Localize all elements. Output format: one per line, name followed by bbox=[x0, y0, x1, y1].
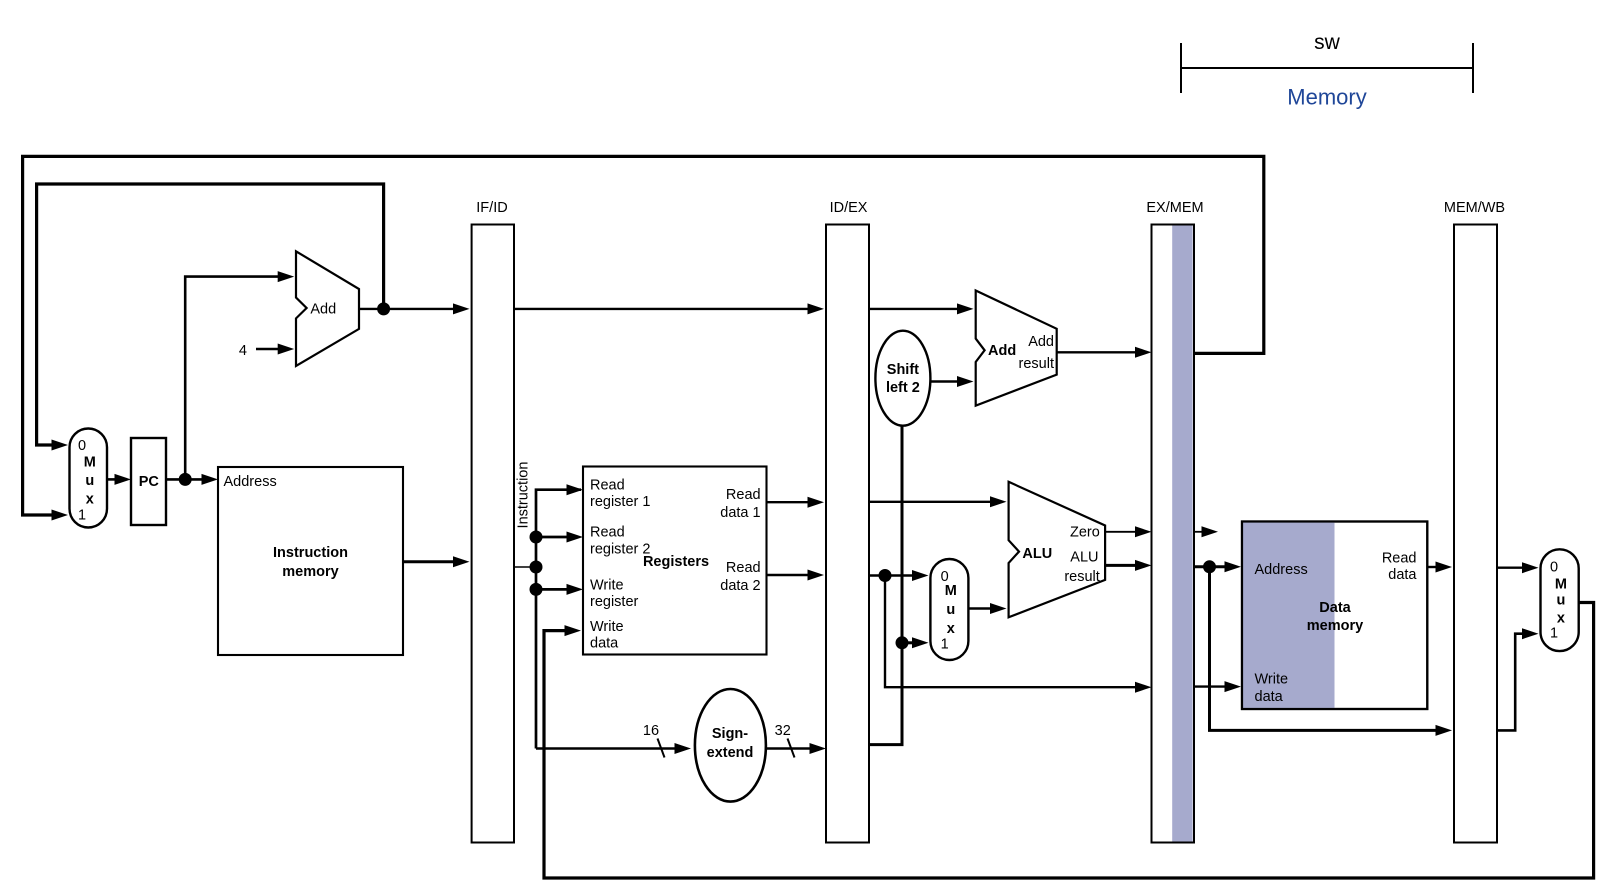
svg-text:32: 32 bbox=[775, 723, 791, 739]
wire: data memory read data to MEM/WB bbox=[1427, 562, 1452, 573]
svg-text:register 1: register 1 bbox=[590, 494, 650, 510]
junction dot immediate/mux1 bbox=[896, 636, 909, 649]
svg-text:memory: memory bbox=[1307, 618, 1363, 634]
wire: PC+4 loop from Add output to PC mux input 0 bbox=[37, 184, 384, 451]
svg-text:4: 4 bbox=[239, 343, 247, 359]
pipeline register ID/EX bbox=[826, 200, 869, 843]
unit shift left 2 bbox=[875, 331, 930, 426]
wire: Zero to EX/MEM bbox=[1105, 526, 1151, 537]
wire: PC+4 from ID/EX to branch Add bbox=[869, 303, 974, 314]
wire: MEM/WB read data to final mux input 0 bbox=[1497, 562, 1539, 573]
svg-text:Registers: Registers bbox=[643, 554, 709, 570]
wire: write-back from final mux to registers write data bbox=[544, 603, 1594, 879]
svg-text:ID/EX: ID/EX bbox=[830, 200, 868, 216]
wire: MEM/WB ALU result to final mux input 1 bbox=[1497, 628, 1539, 730]
svg-text:1: 1 bbox=[941, 637, 949, 653]
wire: mux to PC bbox=[107, 474, 132, 485]
wire: shift left 2 out to branch Add bbox=[930, 376, 973, 387]
svg-text:x: x bbox=[947, 621, 955, 637]
mux M1 (PC source mux) bbox=[70, 429, 108, 528]
svg-text:extend: extend bbox=[707, 745, 754, 761]
svg-text:u: u bbox=[85, 473, 94, 489]
svg-text:Read: Read bbox=[590, 478, 625, 494]
svg-text:16: 16 bbox=[643, 723, 659, 739]
wire: read data 2 from ID/EX to mux and EX/MEM write data bbox=[869, 569, 1152, 693]
svg-text:Read: Read bbox=[726, 487, 761, 503]
svg-text:Memory: Memory bbox=[1287, 85, 1366, 110]
svg-text:0: 0 bbox=[78, 438, 86, 454]
svg-text:IF/ID: IF/ID bbox=[476, 200, 507, 216]
svg-text:M: M bbox=[84, 455, 96, 471]
wire: ALU result to EX/MEM bbox=[1105, 560, 1151, 571]
mux M2 (ALU operand mux) bbox=[930, 559, 968, 660]
svg-text:0: 0 bbox=[1550, 560, 1558, 576]
svg-text:M: M bbox=[1555, 577, 1567, 593]
svg-text:1: 1 bbox=[1550, 626, 1558, 642]
pipeline register EX/MEM bbox=[1146, 200, 1203, 843]
svg-text:data: data bbox=[1255, 689, 1284, 705]
svg-text:Write: Write bbox=[590, 578, 624, 594]
svg-text:EX/MEM: EX/MEM bbox=[1146, 200, 1203, 216]
svg-text:Add: Add bbox=[988, 343, 1016, 359]
svg-text:Write: Write bbox=[1255, 671, 1289, 687]
wire: Add result to EX/MEM bbox=[1057, 347, 1152, 358]
unit ALU bbox=[1009, 482, 1106, 618]
wire: instruction distribution vertical bbox=[530, 484, 584, 748]
svg-text:Sign-: Sign- bbox=[712, 726, 748, 742]
wire: PC out to instruction memory bbox=[166, 473, 218, 486]
junction dot instr/read2 bbox=[530, 531, 543, 544]
wire: branch loop from EX/MEM to PC mux input 1 bbox=[23, 156, 1264, 520]
svg-text:x: x bbox=[1557, 611, 1565, 627]
junction dot instr/write reg bbox=[530, 583, 543, 596]
svg-text:u: u bbox=[1556, 593, 1565, 609]
svg-text:data 2: data 2 bbox=[720, 578, 760, 594]
svg-text:Address: Address bbox=[224, 474, 277, 490]
wire: branch to Write register bbox=[536, 588, 568, 591]
wire: write data from EX/MEM to data memory bbox=[1194, 681, 1241, 692]
svg-text:result: result bbox=[1019, 356, 1054, 372]
svg-text:ALU: ALU bbox=[1070, 549, 1098, 565]
svg-text:ALU: ALU bbox=[1022, 546, 1052, 562]
svg-text:1: 1 bbox=[78, 508, 86, 524]
wire: instruction memory out to IF/ID bbox=[403, 556, 470, 567]
svg-text:Instruction: Instruction bbox=[273, 545, 348, 561]
wire: read data 1 to ID/EX bbox=[767, 497, 824, 508]
junction dot ALU result bbox=[1203, 560, 1216, 573]
wire: ALU result from EX/MEM to data memory address and MEM/WB bbox=[1194, 560, 1452, 736]
adder Add (branch target) bbox=[976, 291, 1057, 406]
wire: PC+4 through IF/ID to ID/EX bbox=[514, 303, 824, 314]
adder Add (PC+4) bbox=[296, 251, 359, 366]
svg-text:Zero: Zero bbox=[1070, 525, 1100, 541]
svg-text:Instruction: Instruction bbox=[516, 462, 532, 529]
wire: sign extend out to ID/EX bbox=[766, 723, 827, 758]
svg-text:MEM/WB: MEM/WB bbox=[1444, 200, 1505, 216]
svg-text:M: M bbox=[945, 583, 957, 599]
svg-text:left 2: left 2 bbox=[886, 380, 920, 396]
svg-text:memory: memory bbox=[282, 564, 338, 580]
svg-text:Write: Write bbox=[590, 619, 624, 635]
svg-text:Read: Read bbox=[1382, 550, 1417, 566]
svg-text:sw: sw bbox=[1314, 31, 1341, 54]
svg-text:data 1: data 1 bbox=[720, 505, 760, 521]
svg-text:register: register bbox=[590, 594, 639, 610]
svg-text:x: x bbox=[86, 492, 94, 508]
block data memory bbox=[1242, 522, 1427, 710]
constant 4 into Add bbox=[239, 343, 294, 359]
pipeline register MEM/WB bbox=[1444, 200, 1505, 843]
wire: Add output to IF/ID bbox=[359, 302, 470, 315]
svg-text:result: result bbox=[1064, 569, 1099, 585]
svg-text:Read: Read bbox=[726, 560, 761, 576]
unit sign-extend bbox=[695, 689, 766, 802]
svg-text:Data: Data bbox=[1319, 600, 1351, 616]
wire: read data 2 to ID/EX bbox=[767, 570, 824, 581]
register PC bbox=[131, 438, 166, 525]
bus slash 16 bbox=[658, 739, 665, 758]
wire: branch to Read register 2 bbox=[536, 536, 568, 539]
wire: immediate from ID/EX up to shift left 2 and mux bbox=[870, 426, 929, 745]
block registers bbox=[583, 467, 767, 655]
junction dot instr/ifid bbox=[530, 561, 543, 574]
svg-text:register 2: register 2 bbox=[590, 542, 650, 558]
bus slash 32 bbox=[788, 739, 795, 758]
svg-text:Add: Add bbox=[1028, 334, 1054, 350]
junction dot PC out bbox=[179, 473, 192, 486]
block instruction memory bbox=[218, 467, 403, 655]
svg-text:data: data bbox=[590, 636, 619, 652]
svg-text:PC: PC bbox=[139, 474, 160, 490]
wire: IF/ID instruction to distribution node bbox=[513, 566, 536, 568]
pipeline register IF/ID bbox=[472, 200, 514, 843]
svg-text:u: u bbox=[946, 602, 955, 618]
svg-text:Shift: Shift bbox=[887, 362, 919, 378]
mux M3 (write-back mux) bbox=[1541, 549, 1579, 651]
junction dot Add out bbox=[377, 302, 390, 315]
wire: instruction 16 low bits to sign extend bbox=[536, 723, 691, 758]
wire: PC up to Add input bbox=[185, 271, 294, 479]
svg-text:Read: Read bbox=[590, 525, 625, 541]
wire: Zero stub out of EX/MEM bbox=[1195, 526, 1218, 537]
stage bracket sw/Memory bbox=[1181, 43, 1473, 93]
junction dot read data 2 bbox=[879, 569, 892, 582]
svg-text:Address: Address bbox=[1255, 562, 1308, 578]
svg-text:Add: Add bbox=[310, 302, 336, 318]
wire: mux out to ALU bbox=[968, 603, 1006, 614]
svg-text:data: data bbox=[1388, 567, 1417, 583]
wire: read data 1 from ID/EX to ALU bbox=[869, 496, 1007, 507]
